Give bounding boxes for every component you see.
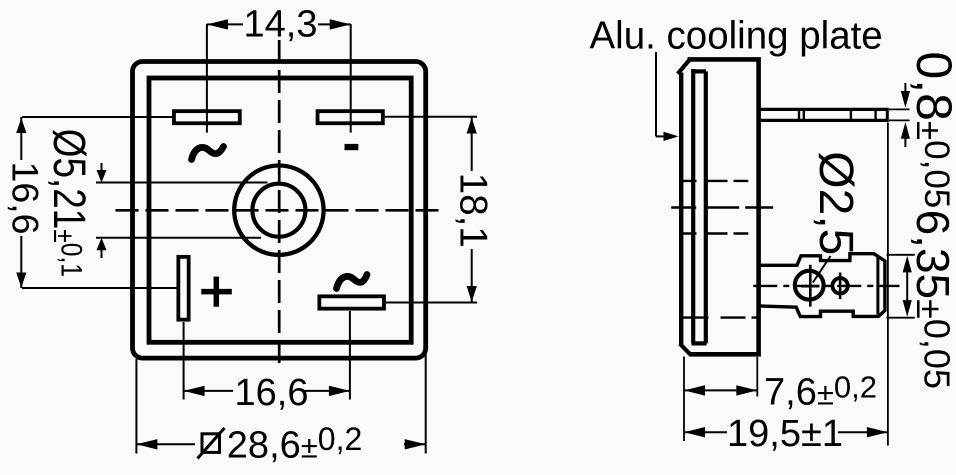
svg-text:7,6±0,2: 7,6±0,2 [764, 370, 877, 414]
svg-text:Alu. cooling plate: Alu. cooling plate [590, 15, 883, 58]
svg-text:Ø5,21±0,1: Ø5,21±0,1 [44, 129, 94, 277]
svg-text:19,5±1: 19,5±1 [727, 413, 843, 455]
svg-text:16,6: 16,6 [235, 372, 309, 414]
svg-text:0,8±0,05: 0,8±0,05 [906, 51, 956, 208]
svg-text:14,3: 14,3 [244, 4, 318, 46]
svg-text:6,35±0,05: 6,35±0,05 [907, 210, 956, 389]
svg-text:16,6: 16,6 [5, 162, 47, 235]
svg-text:18,1: 18,1 [452, 173, 495, 248]
svg-text:Ø2,5: Ø2,5 [809, 151, 862, 255]
svg-text:28,6±0,2: 28,6±0,2 [227, 421, 362, 466]
